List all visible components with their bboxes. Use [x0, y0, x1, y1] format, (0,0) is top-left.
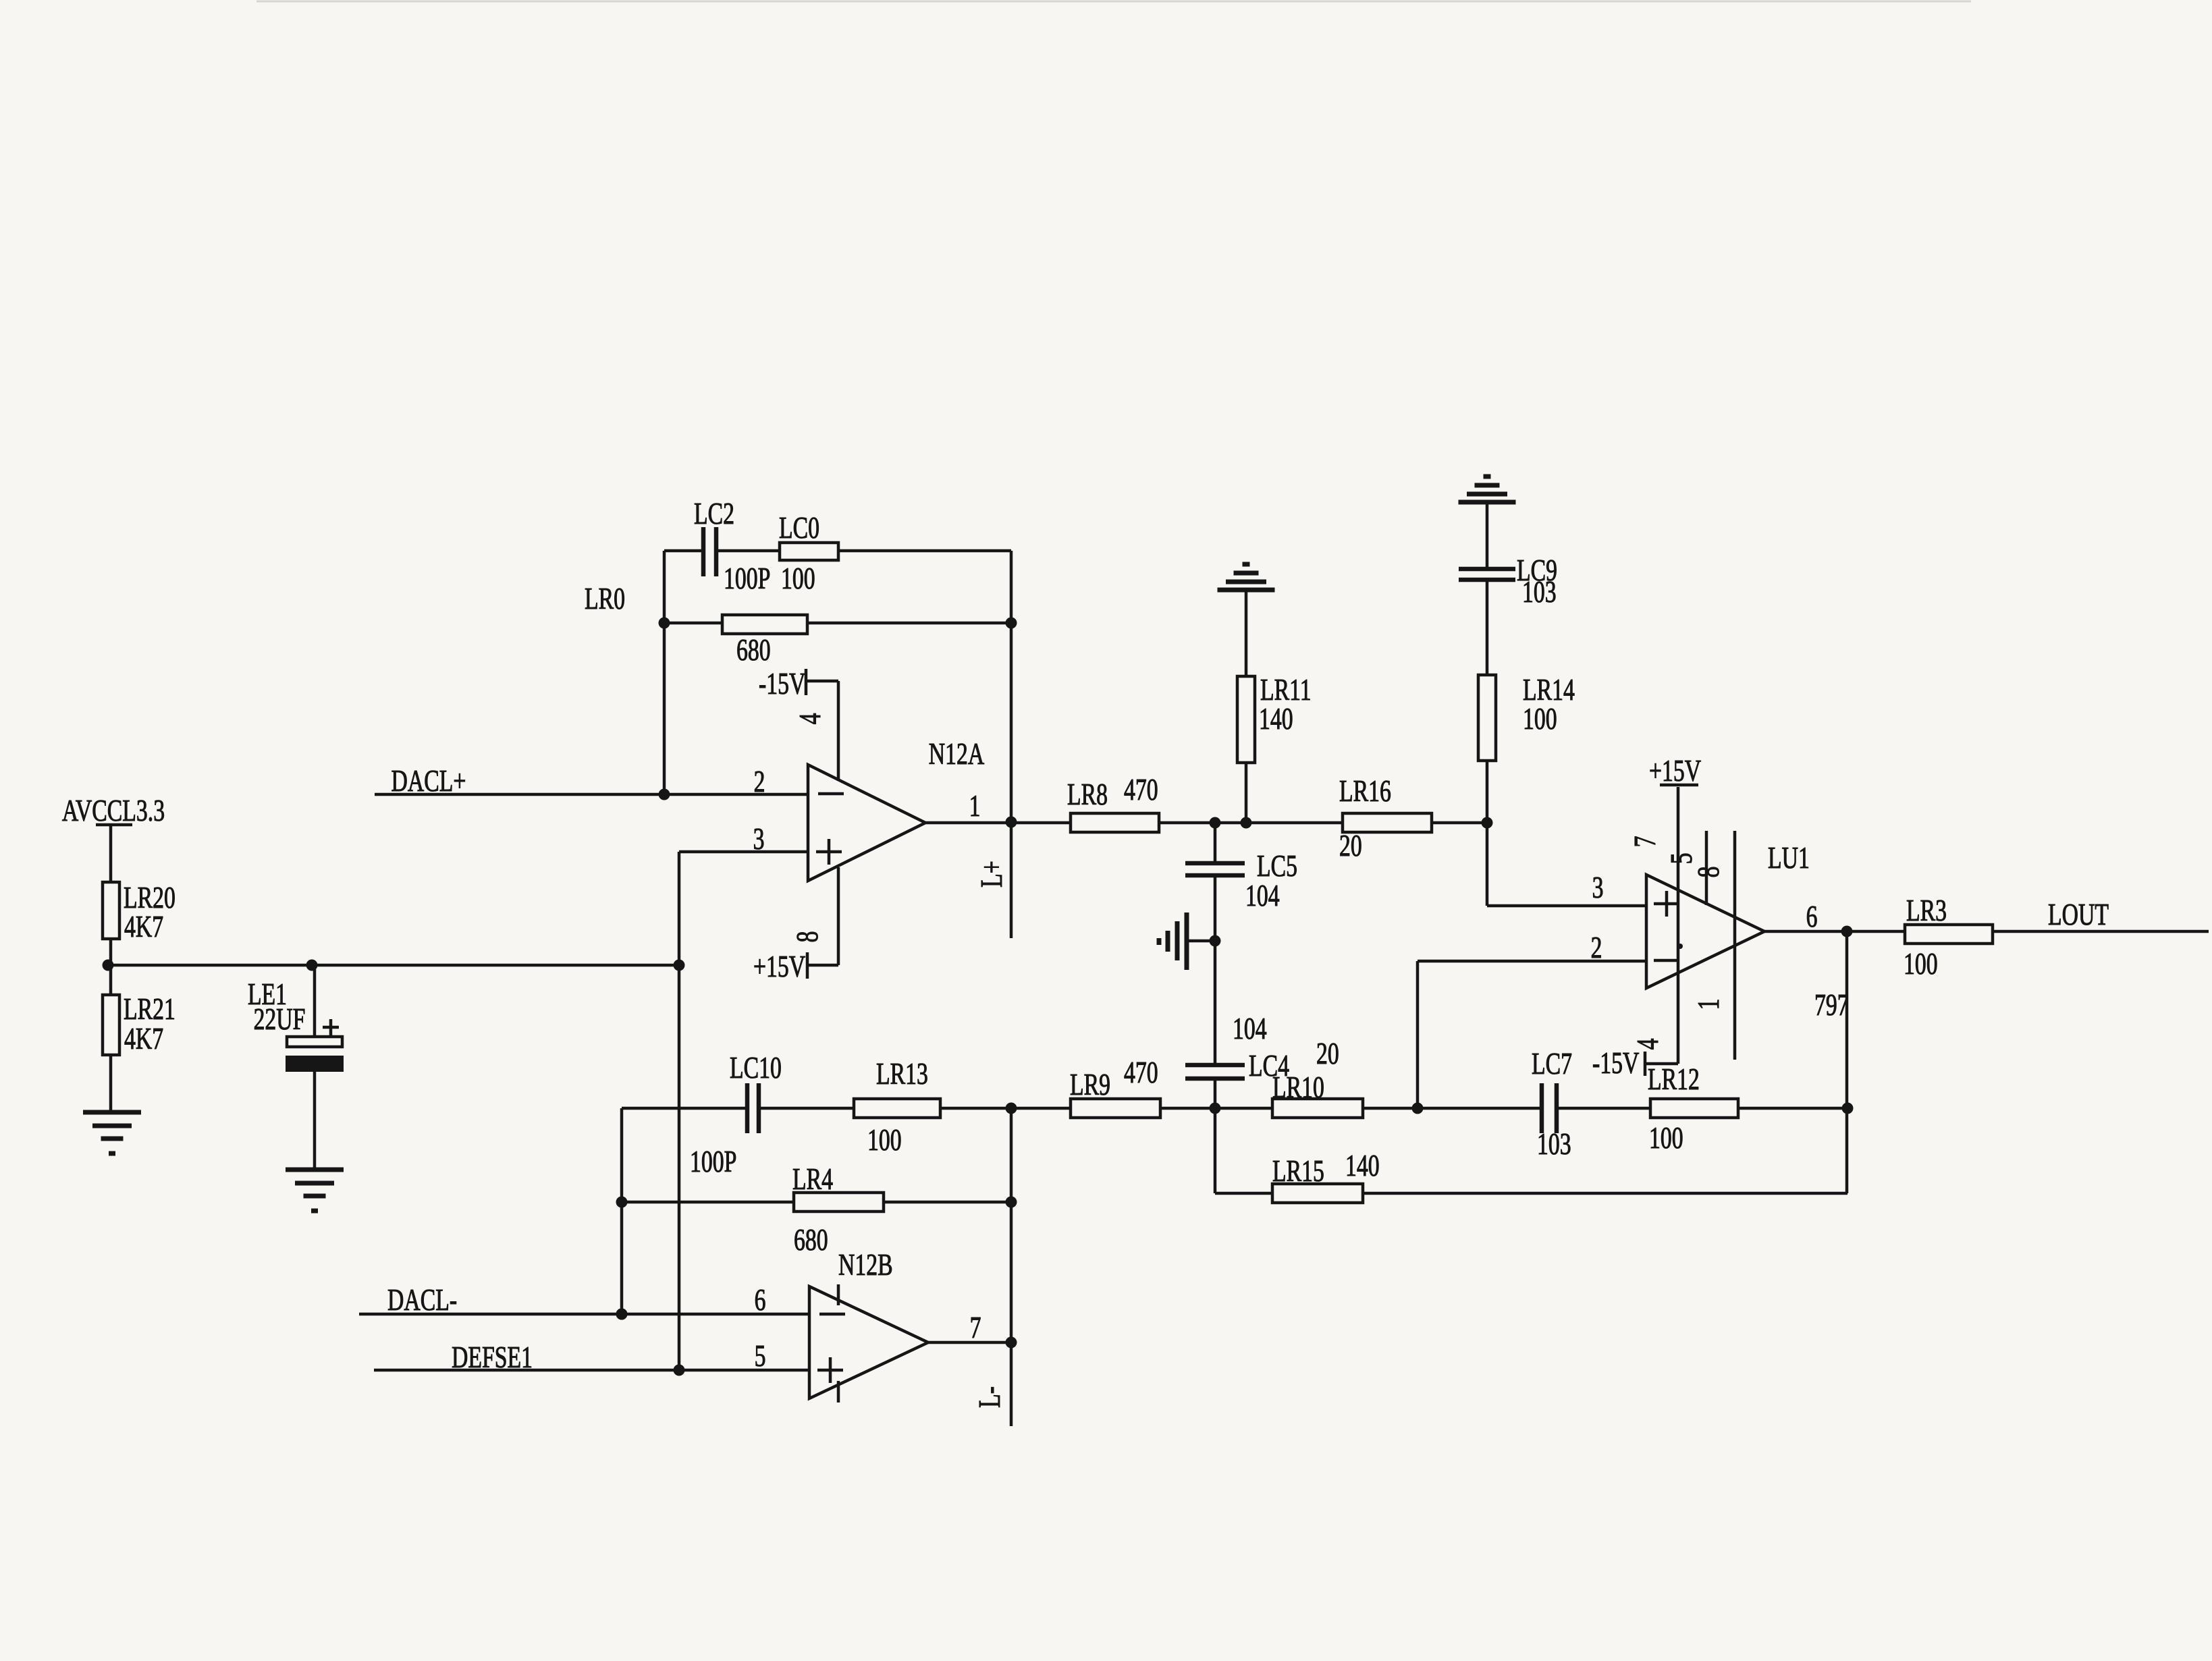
svg-text:LR9: LR9	[1070, 1068, 1110, 1101]
svg-text:LOUT: LOUT	[2048, 898, 2109, 931]
svg-text:N12A: N12A	[929, 737, 985, 771]
svg-text:100: 100	[781, 562, 815, 595]
svg-text:470: 470	[1124, 1056, 1158, 1089]
svg-text:LR0: LR0	[585, 582, 625, 616]
svg-text:5: 5	[1665, 853, 1698, 865]
svg-text:104: 104	[1245, 879, 1280, 913]
svg-text:LC2: LC2	[694, 497, 734, 530]
svg-text:LU1: LU1	[1768, 841, 1810, 875]
svg-text:470: 470	[1124, 773, 1158, 807]
svg-text:4: 4	[1631, 1038, 1665, 1050]
svg-text:100: 100	[1523, 702, 1557, 736]
svg-text:1: 1	[969, 789, 981, 823]
svg-text:100: 100	[1649, 1121, 1683, 1155]
svg-text:LC7: LC7	[1532, 1047, 1572, 1081]
svg-text:+15V: +15V	[1649, 754, 1701, 788]
svg-text:20: 20	[1316, 1037, 1339, 1070]
svg-text:LR21: LR21	[124, 992, 176, 1026]
svg-text:3: 3	[1592, 871, 1604, 904]
svg-text:100: 100	[1904, 947, 1938, 981]
svg-text:22UF: 22UF	[254, 1002, 306, 1036]
svg-text:+15V: +15V	[753, 950, 805, 983]
svg-text:N12B: N12B	[838, 1248, 893, 1282]
svg-text:104: 104	[1233, 1012, 1267, 1045]
svg-text:140: 140	[1259, 702, 1293, 736]
svg-text:LR13: LR13	[876, 1057, 928, 1091]
svg-text:7: 7	[1628, 836, 1662, 848]
svg-text:-15V: -15V	[1592, 1046, 1640, 1080]
svg-text:L+: L+	[975, 861, 1008, 888]
svg-text:L-: L-	[973, 1386, 1006, 1408]
svg-text:6: 6	[1806, 900, 1818, 933]
svg-text:100: 100	[867, 1123, 902, 1157]
svg-text:680: 680	[736, 633, 771, 667]
svg-text:LR3: LR3	[1906, 894, 1947, 927]
svg-text:6: 6	[755, 1283, 766, 1317]
svg-text:20: 20	[1339, 829, 1362, 863]
svg-text:2: 2	[1591, 931, 1602, 964]
svg-text:4K7: 4K7	[124, 1022, 163, 1056]
svg-text:2: 2	[754, 765, 765, 798]
svg-text:1: 1	[1692, 999, 1725, 1010]
svg-text:8: 8	[1692, 867, 1725, 878]
svg-text:LC0: LC0	[779, 511, 819, 545]
svg-text:4K7: 4K7	[124, 910, 163, 944]
svg-text:DACL+: DACL+	[392, 764, 466, 798]
svg-text:100P: 100P	[690, 1145, 736, 1178]
svg-text:LR15: LR15	[1272, 1154, 1324, 1188]
svg-text:LR8: LR8	[1067, 778, 1108, 811]
svg-text:LC5: LC5	[1257, 849, 1297, 883]
svg-text:7: 7	[970, 1311, 981, 1344]
svg-text:8: 8	[790, 931, 824, 943]
svg-text:LR16: LR16	[1339, 774, 1391, 808]
svg-text:680: 680	[794, 1223, 828, 1257]
svg-text:-15V: -15V	[759, 667, 806, 701]
svg-text:5: 5	[755, 1339, 766, 1373]
svg-text:LC10: LC10	[730, 1051, 782, 1085]
svg-text:103: 103	[1537, 1127, 1571, 1161]
svg-text:LR12: LR12	[1648, 1062, 1700, 1096]
svg-text:LR4: LR4	[792, 1162, 833, 1196]
svg-text:AVCCL3.3: AVCCL3.3	[62, 794, 165, 827]
svg-text:103: 103	[1522, 575, 1557, 609]
svg-text:100P: 100P	[724, 562, 770, 595]
svg-text:DACL-: DACL-	[387, 1283, 457, 1317]
svg-text:4: 4	[793, 713, 827, 724]
svg-text:140: 140	[1345, 1149, 1380, 1182]
svg-text:797: 797	[1814, 988, 1849, 1022]
svg-text:LR10: LR10	[1272, 1070, 1324, 1104]
